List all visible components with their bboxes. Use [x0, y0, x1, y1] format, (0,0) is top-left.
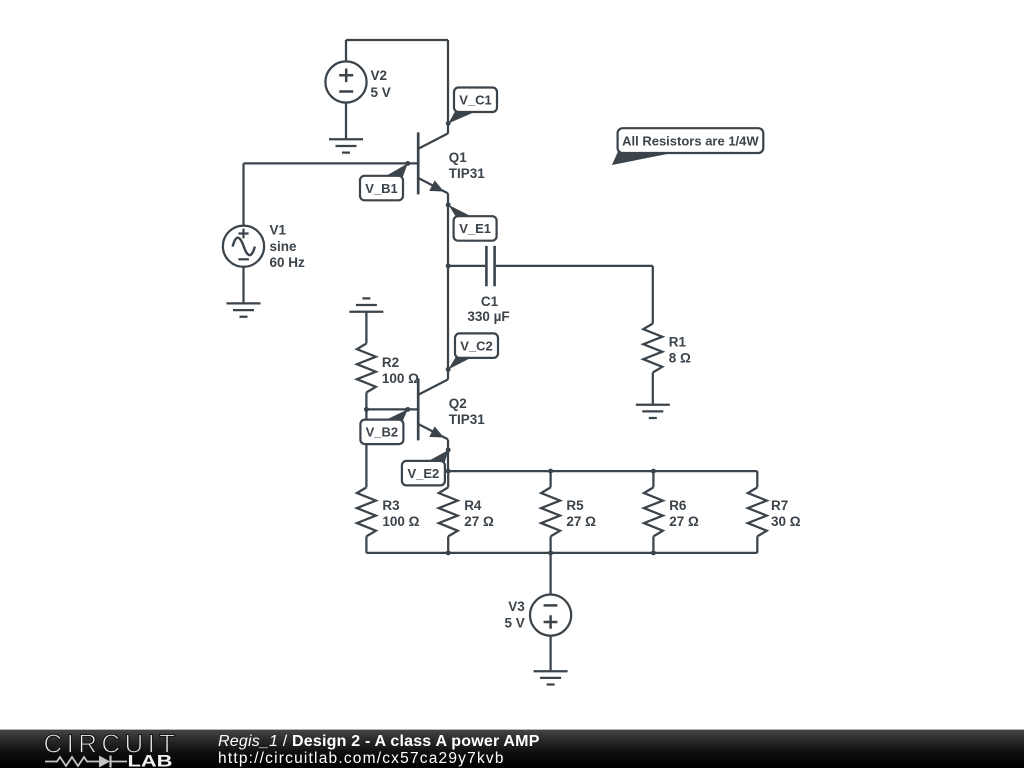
svg-text:V1: V1 [270, 223, 287, 238]
node flag V_C1 [449, 88, 498, 124]
label V1 sine 60 Hz [270, 223, 306, 271]
node bottom R4 junction [446, 550, 451, 555]
transistor Q1 (NPN TIP31) [418, 132, 448, 194]
svg-text:Regis_1 / Design 2 - A class A: Regis_1 / Design 2 - A class A power AMP [218, 733, 540, 750]
svg-text:V_B1: V_B1 [365, 181, 398, 196]
svg-text:sine: sine [270, 239, 298, 254]
node R2 R3 base junction [364, 407, 369, 412]
wire R6 bottom lead [652, 536, 654, 553]
label R5 27 ohm [566, 498, 596, 529]
svg-text:TIP31: TIP31 [449, 412, 486, 427]
node bottom V3 junction [548, 550, 553, 555]
wire R1 top lead [652, 266, 654, 324]
resistor R7 [748, 487, 767, 536]
svg-text:R3: R3 [382, 498, 400, 513]
label R2 100 ohm [382, 355, 419, 386]
wire R5 top lead [549, 471, 551, 487]
svg-text:27 Ω: 27 Ω [669, 514, 699, 529]
svg-text:R1: R1 [669, 335, 687, 350]
node V_E1 junction [446, 202, 451, 207]
wire C1 node down to Q2 collector [447, 266, 449, 380]
wire Q1 emitter to C1 node [447, 193, 449, 266]
ground below V1 [227, 303, 261, 316]
label R6 27 ohm [669, 498, 699, 529]
svg-text:R6: R6 [669, 498, 687, 513]
wire R5 bottom lead [549, 536, 551, 553]
wire bottom rail [366, 552, 757, 554]
svg-text:V3: V3 [508, 599, 525, 614]
wire V2 positive lead [345, 40, 347, 61]
svg-text:V_C2: V_C2 [460, 338, 493, 353]
wire R4 top lead [447, 471, 449, 487]
wire R2 ground lead [365, 312, 367, 344]
voltage source V1 (sine) [223, 226, 264, 267]
wire R6 top lead [652, 471, 654, 487]
label C1 330 uF [467, 294, 509, 324]
label R4 27 ohm [464, 498, 494, 529]
svg-text:http://circuitlab.com/cx57ca29: http://circuitlab.com/cx57ca29y7kvb [218, 750, 505, 767]
svg-text:V_B2: V_B2 [366, 425, 399, 440]
wire Q2 emitter down to rail [447, 440, 449, 472]
svg-text:TIP31: TIP31 [449, 166, 486, 181]
ground below R1 [636, 405, 670, 418]
svg-text:60 Hz: 60 Hz [270, 255, 306, 270]
wire top rail V2 to Q1 collector [346, 39, 448, 41]
svg-text:C1: C1 [481, 294, 499, 309]
svg-text:Q1: Q1 [449, 150, 468, 165]
resistor R4 [439, 487, 458, 536]
svg-text:27 Ω: 27 Ω [464, 514, 494, 529]
svg-text:All Resistors are 1/4W: All Resistors are 1/4W [622, 134, 759, 149]
svg-text:V_E1: V_E1 [459, 221, 491, 236]
wire R1 bottom lead to ground [652, 373, 654, 405]
label R3 100 ohm [382, 498, 419, 529]
transistor Q2 (NPN TIP31) [418, 378, 448, 440]
svg-text:30 Ω: 30 Ω [771, 514, 801, 529]
label R1 8 ohm [669, 335, 691, 366]
wire V1 top lead [242, 163, 244, 225]
wire V3 top lead [549, 553, 551, 595]
svg-text:V_C1: V_C1 [459, 93, 492, 108]
svg-text:V_E2: V_E2 [407, 466, 439, 481]
wire base node to Q2 base [366, 408, 417, 410]
svg-text:V2: V2 [371, 68, 388, 83]
svg-text:8 Ω: 8 Ω [669, 350, 691, 365]
wire R2 bottom to base node [365, 393, 367, 410]
node flag V_E1 [449, 205, 497, 241]
wire base node down to R3 [365, 409, 367, 487]
node V_C2 junction [446, 367, 451, 372]
label V2 5 V [371, 68, 391, 100]
voltage source V2 [325, 61, 366, 102]
node rail R5 junction [548, 469, 553, 474]
svg-text:Q2: Q2 [449, 396, 467, 411]
wire C1 left lead [448, 265, 485, 267]
wire V3 bottom lead to ground [549, 636, 551, 672]
node Q1 base junction [405, 161, 410, 166]
node rail R6 junction [651, 469, 656, 474]
svg-text:5 V: 5 V [505, 615, 525, 630]
wire top rail emitters [448, 470, 757, 472]
junction dots [364, 121, 656, 556]
node flag V_C2 [448, 333, 498, 369]
svg-text:LAB: LAB [128, 752, 173, 768]
node V_C1 junction [446, 121, 451, 126]
label Q2 TIP31 [449, 396, 486, 427]
resistor R3 [357, 487, 376, 536]
node Q2 base junction [405, 407, 410, 412]
svg-text:27 Ω: 27 Ω [566, 514, 596, 529]
inverted ground above R2 [349, 298, 383, 311]
resistor R5 [541, 487, 560, 536]
wire V1 bottom lead to ground [242, 267, 244, 304]
label R7 30 ohm [771, 498, 801, 529]
label Q1 TIP31 [449, 150, 486, 181]
svg-text:330 µF: 330 µF [467, 309, 509, 324]
node flag V_B1 [360, 163, 408, 200]
wire V1 to Q1 base [244, 162, 418, 164]
wire R7 top lead [756, 471, 758, 487]
wire R4 bottom lead [447, 536, 449, 553]
svg-text:R2: R2 [382, 355, 399, 370]
node rail R4 junction [446, 469, 451, 474]
svg-text:R4: R4 [464, 498, 482, 513]
resistor R2 [357, 344, 376, 393]
svg-text:5 V: 5 V [371, 85, 391, 100]
ground below V3 [534, 671, 568, 684]
ground below V2 [329, 139, 363, 152]
wire R3 bottom lead [365, 536, 367, 553]
node flag V_B2 [360, 409, 407, 444]
wire R7 bottom lead [756, 536, 758, 553]
capacitor C1 [486, 246, 494, 286]
node C1 junction [446, 263, 451, 268]
resistor R1 [643, 324, 662, 373]
wire V2 negative lead to ground [345, 103, 347, 140]
node flag V_E2 [402, 450, 449, 485]
svg-text:R5: R5 [566, 498, 584, 513]
label V3 5 V [505, 599, 526, 630]
resistor R6 [644, 487, 663, 536]
svg-text:100 Ω: 100 Ω [382, 371, 419, 386]
node bottom R6 junction [651, 550, 656, 555]
CircuitLab logo [44, 729, 180, 768]
svg-text:R7: R7 [771, 498, 788, 513]
wire C1 right lead to R1 [496, 265, 653, 267]
footer bar [0, 729, 1024, 768]
node V_E2 junction [446, 447, 451, 452]
annotation All Resistors are 1/4W [612, 128, 763, 165]
voltage source V3 [530, 595, 571, 636]
svg-text:100 Ω: 100 Ω [382, 514, 419, 529]
wire Q1 collector drop [447, 40, 449, 134]
